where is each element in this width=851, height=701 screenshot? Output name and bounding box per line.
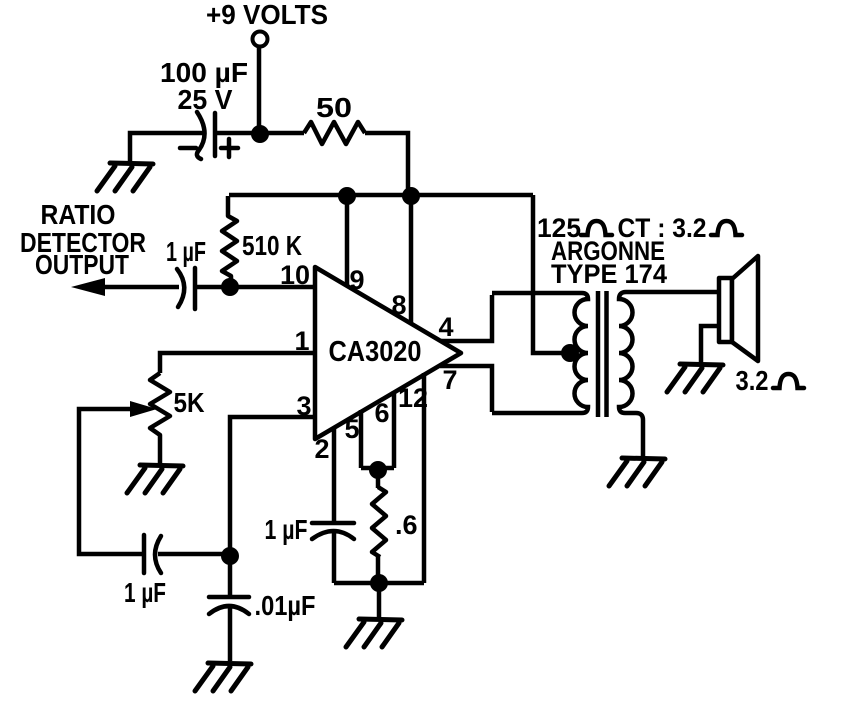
node +9V terminal: [253, 32, 268, 47]
wire pin7: [440, 366, 492, 412]
label RATIO DETECTOR OUTPUT: [20, 199, 146, 280]
svg-text:.6: .6: [395, 510, 418, 540]
svg-text:1 µF: 1 µF: [166, 236, 206, 267]
wire pin5-6 join: [361, 466, 394, 471]
svg-text:5: 5: [344, 414, 359, 444]
svg-text:3.2: 3.2: [736, 365, 769, 396]
junction J4: [221, 278, 239, 296]
ground G4: [346, 619, 402, 647]
ohm symbol 3: [773, 374, 804, 388]
transformer core: [598, 291, 607, 417]
svg-text:50: 50: [316, 92, 352, 123]
wire pin3: [230, 417, 313, 556]
wire J7 to R4: [376, 470, 381, 488]
wire J5 to C5: [228, 556, 233, 597]
junction center tap: [561, 344, 579, 362]
svg-text:510 K: 510 K: [242, 230, 302, 261]
wire supply rail: [229, 193, 533, 198]
wire J1 to R1: [260, 131, 304, 136]
transformer T1 secondary: [619, 292, 719, 456]
svg-text:6: 6: [374, 398, 389, 428]
arrow output left: [71, 278, 105, 296]
wire bottom rail: [334, 581, 424, 586]
svg-text:OUTPUT: OUTPUT: [35, 249, 129, 280]
capacitor C1 100uF: [180, 112, 238, 159]
ground G5: [609, 458, 665, 486]
svg-text:CA3020: CA3020: [329, 336, 422, 368]
svg-text:1 µF: 1 µF: [124, 577, 166, 608]
svg-text:2: 2: [314, 434, 329, 464]
wire +9V down: [257, 47, 262, 133]
svg-text:10: 10: [280, 260, 310, 290]
junction J2: [338, 187, 356, 205]
capacitor C2 1uF: [177, 268, 195, 309]
capacitor C6 1uF: [312, 523, 354, 539]
wire center-tap feed: [533, 195, 566, 353]
wire J6 to ground: [377, 583, 382, 617]
svg-text:RATIO: RATIO: [41, 199, 116, 230]
wire output to C2: [100, 285, 179, 290]
junction J3: [402, 187, 420, 205]
svg-text:25 V: 25 V: [178, 84, 233, 115]
capacitor C5 .01uF: [209, 597, 249, 614]
junction J1: [251, 125, 269, 143]
ground G2: [127, 465, 183, 493]
wire pin12: [422, 373, 427, 583]
wire pin1: [160, 353, 313, 373]
ground G3: [195, 663, 251, 691]
svg-text:8: 8: [391, 290, 406, 320]
ohm symbol 2: [711, 221, 742, 235]
wire speaker to ground: [701, 326, 719, 362]
wire C4 to J5: [158, 552, 225, 557]
junction J6: [370, 574, 388, 592]
arrow wiper: [130, 401, 157, 417]
speaker LS1: [719, 256, 758, 361]
transformer T1 primary: [492, 293, 588, 413]
svg-text:.01µF: .01µF: [255, 590, 316, 621]
resistor R2 510K: [222, 196, 237, 287]
svg-text:4: 4: [438, 312, 453, 342]
junction J7: [369, 461, 387, 479]
resistor R4 .6: [372, 487, 386, 557]
op-amp U1 CA3020: [315, 267, 461, 439]
svg-text:1 µF: 1 µF: [265, 514, 308, 545]
label 125 ohm CT 3.2 ohm: [537, 213, 707, 289]
svg-text:9: 9: [349, 265, 364, 295]
wire wiper loop: [79, 409, 142, 554]
wire C6 to rail: [332, 533, 337, 583]
wire pin10: [230, 285, 313, 290]
wire pin9: [345, 196, 350, 287]
wire pin5: [359, 410, 364, 468]
label 100 uF 25 V: [160, 57, 248, 115]
wire C2 to J4: [195, 285, 225, 290]
potentiometer R3 5K: [150, 373, 170, 463]
svg-text:7: 7: [442, 365, 457, 395]
wire R4 to rail: [376, 556, 381, 583]
wire pin2: [332, 427, 337, 523]
svg-text:5K: 5K: [174, 387, 205, 418]
wire pin4: [441, 295, 492, 341]
wire pin6: [392, 391, 397, 468]
ground G1: [97, 163, 153, 191]
wire C1 left to ground: [130, 133, 203, 161]
ohm symbol 1: [581, 221, 612, 235]
resistor R1 50: [304, 122, 365, 144]
wire C5 to ground: [228, 608, 233, 661]
capacitor C4 1uF: [144, 535, 161, 573]
junction J5: [221, 547, 239, 565]
svg-text:TYPE 174: TYPE 174: [551, 259, 667, 289]
wire pin8: [409, 196, 414, 324]
ground G6: [667, 364, 723, 392]
wire R1 to rail: [365, 133, 408, 194]
wire C1 right to J1: [215, 131, 258, 136]
svg-text:+9 VOLTS: +9 VOLTS: [206, 0, 328, 30]
